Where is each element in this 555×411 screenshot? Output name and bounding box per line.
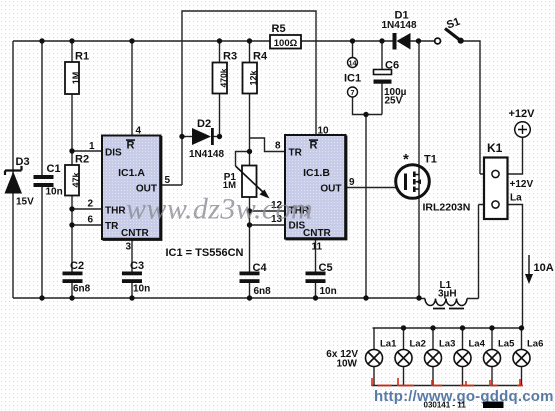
wire out B to gate	[346, 187, 406, 189]
wire R1 R2 branch	[71, 41, 73, 298]
svg-text:100Ω: 100Ω	[274, 38, 298, 49]
svg-text:TR: TR	[289, 148, 303, 159]
svg-text:6n8: 6n8	[73, 284, 91, 295]
capacitor C5	[306, 262, 337, 297]
svg-text:R4: R4	[253, 51, 268, 63]
svg-text:IRL2203N: IRL2203N	[423, 202, 471, 214]
svg-text:La6: La6	[527, 339, 543, 350]
svg-text:10n: 10n	[320, 286, 337, 297]
svg-text:K1: K1	[487, 141, 503, 155]
wire lamp drops bottom	[374, 367, 522, 386]
capacitor C2	[63, 260, 91, 295]
svg-text:11: 11	[312, 242, 323, 253]
black blob	[483, 402, 504, 409]
svg-text:6: 6	[88, 215, 94, 226]
svg-text:C3: C3	[130, 260, 144, 272]
wire K1 bottom terminal	[479, 205, 523, 329]
svg-text:470k: 470k	[219, 68, 229, 87]
svg-text:IC1.B: IC1.B	[303, 167, 330, 179]
capacitor C1	[34, 163, 63, 198]
wire pin7 ground	[353, 97, 383, 115]
lamp La1	[366, 339, 398, 367]
lamp La3	[425, 339, 456, 367]
svg-text:IC1: IC1	[344, 73, 361, 85]
wire pin2	[72, 208, 102, 210]
resistor R4	[243, 51, 268, 94]
wire bypass top	[182, 11, 316, 185]
wire L1 leads	[419, 298, 479, 300]
wire ground drop	[365, 115, 367, 299]
IC op U1A IC1.A	[102, 136, 161, 240]
svg-text:+12V: +12V	[510, 179, 534, 190]
wire pin13	[250, 224, 286, 226]
current arrow 10A	[525, 255, 554, 284]
svg-text:IC1.A: IC1.A	[118, 167, 145, 179]
lamp La5	[484, 339, 516, 367]
svg-text:OUT: OUT	[320, 184, 341, 195]
svg-text:C2: C2	[70, 260, 84, 272]
lamp La4	[454, 339, 486, 367]
wire pin8 jog	[250, 138, 286, 152]
wire pin3 C3	[131, 239, 133, 298]
svg-text:1: 1	[89, 141, 95, 152]
svg-text:R2: R2	[75, 154, 89, 166]
wire C1 branch	[41, 41, 43, 298]
wire lamp top rail	[373, 327, 523, 329]
red scan marks	[372, 378, 523, 386]
wire La to L1	[478, 205, 480, 299]
svg-text:La2: La2	[410, 339, 426, 350]
wire left rail	[12, 41, 14, 298]
svg-text:5: 5	[165, 175, 171, 186]
svg-text:3µH: 3µH	[438, 289, 457, 300]
svg-text:47k: 47k	[71, 172, 81, 188]
lamp La2	[395, 339, 426, 367]
svg-text:1N4148: 1N4148	[382, 20, 417, 31]
lamp La6	[513, 339, 543, 367]
wire top rail left	[13, 40, 270, 42]
svg-text:www.dz3w.com: www.dz3w.com	[126, 193, 313, 226]
svg-text:9: 9	[349, 177, 355, 188]
svg-text:030141 - 11: 030141 - 11	[424, 401, 467, 410]
wire pin11 C5	[315, 239, 317, 299]
svg-text:C5: C5	[319, 262, 333, 274]
wire S1 to K1	[464, 41, 481, 174]
diode D2	[189, 118, 224, 160]
resistor R1	[65, 51, 89, 95]
switch S1	[435, 16, 464, 44]
connector K1	[484, 141, 533, 219]
svg-text:10n: 10n	[46, 187, 63, 198]
wire pin4	[131, 41, 133, 136]
wire pin1	[72, 150, 102, 152]
svg-text:R3: R3	[223, 51, 237, 63]
svg-text:CNTR: CNTR	[121, 228, 150, 239]
svg-text:14: 14	[349, 58, 357, 67]
svg-text:R: R	[127, 140, 135, 152]
resistor R3	[213, 51, 238, 94]
lamp group label	[326, 349, 358, 370]
svg-text:THR: THR	[105, 206, 126, 217]
resistor R2	[65, 154, 89, 196]
supply +12V	[509, 108, 536, 137]
capacitor C4	[240, 262, 272, 297]
svg-text:C4: C4	[253, 262, 268, 274]
capacitor C6 electrolytic	[374, 60, 407, 107]
svg-text:C6: C6	[385, 60, 399, 72]
wire out A	[161, 184, 183, 186]
MOSFET T1	[396, 151, 471, 214]
svg-text:D3: D3	[16, 156, 30, 168]
wire T1 drain source	[418, 41, 420, 298]
wire R4 P1 branch	[249, 41, 251, 298]
svg-text:*: *	[403, 151, 409, 168]
svg-text:TR: TR	[105, 221, 119, 232]
IC op U1B IC1.B	[285, 135, 346, 239]
svg-text:25V: 25V	[385, 96, 403, 107]
svg-text:R1: R1	[75, 51, 89, 63]
svg-text:D2: D2	[197, 118, 211, 130]
svg-text:1M: 1M	[223, 180, 236, 191]
wire D2 anode	[182, 136, 192, 138]
wire bottom rail	[13, 297, 419, 299]
svg-text:8: 8	[275, 141, 281, 152]
svg-text:C1: C1	[47, 163, 61, 175]
svg-text:La5: La5	[498, 339, 515, 350]
wire pin14	[352, 41, 354, 58]
svg-text:6n8: 6n8	[254, 286, 272, 297]
svg-text:2: 2	[88, 199, 94, 210]
svg-text:1N4148: 1N4148	[189, 149, 224, 160]
diode D1	[382, 10, 417, 50]
wire C6 branch	[381, 41, 383, 115]
inductor L1	[425, 280, 467, 309]
wire top rail mid	[301, 40, 393, 42]
svg-text:La1: La1	[380, 339, 397, 350]
wire lamp bottom rail	[372, 385, 522, 387]
svg-text:12k: 12k	[249, 70, 259, 86]
svg-text:+12V: +12V	[509, 108, 536, 120]
wire D2 cathode	[214, 136, 220, 138]
wire K1 top terminal	[480, 138, 523, 175]
zener D3	[5, 156, 35, 208]
svg-text:1M: 1M	[71, 72, 81, 85]
wire R3 branch	[219, 41, 221, 137]
svg-text:La3: La3	[439, 339, 455, 350]
svg-text:IC1 = TS556CN: IC1 = TS556CN	[166, 247, 244, 259]
svg-text:10: 10	[318, 126, 330, 137]
resistor R5	[270, 23, 301, 49]
svg-text:CNTR: CNTR	[303, 228, 332, 239]
wire P1 wiper tie	[236, 152, 250, 167]
pin numbers	[88, 126, 356, 253]
svg-text:10W: 10W	[336, 359, 357, 370]
wire top rail right	[411, 40, 435, 42]
IC1 power pins	[344, 58, 361, 98]
wire lamp drops top	[374, 328, 522, 350]
svg-text:4: 4	[136, 126, 142, 137]
svg-text:10A: 10A	[534, 262, 554, 274]
svg-text:15V: 15V	[16, 197, 34, 208]
svg-text:T1: T1	[424, 154, 437, 166]
wire pin12	[250, 210, 286, 212]
svg-text:La4: La4	[469, 339, 486, 350]
svg-text:R: R	[310, 140, 318, 152]
svg-text:10n: 10n	[133, 284, 150, 295]
svg-text:R5: R5	[272, 23, 286, 35]
capacitor C3	[122, 260, 150, 295]
svg-text:3: 3	[126, 242, 132, 253]
svg-text:DIS: DIS	[105, 148, 122, 159]
wire pin6	[72, 224, 102, 226]
potentiometer P1	[223, 166, 270, 199]
svg-text:7: 7	[351, 88, 355, 97]
svg-text:La: La	[510, 193, 522, 204]
